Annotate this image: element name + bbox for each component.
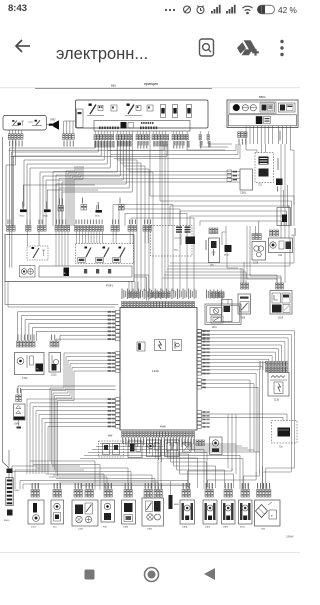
wire to OBD — [202, 414, 288, 421]
wire — [202, 349, 279, 362]
component 1215 body — [252, 242, 266, 261]
svg-text:C901: C901 — [240, 191, 247, 195]
ECU left pins upper — [116, 310, 120, 313]
GMV pins — [16, 395, 19, 402]
dashed option box — [151, 226, 193, 257]
wire — [144, 483, 146, 490]
wire — [114, 158, 240, 160]
wire — [58, 385, 75, 476]
wire — [137, 437, 139, 443]
wire — [32, 452, 34, 474]
connector row BB1 a — [94, 135, 96, 140]
wire — [47, 189, 98, 191]
wire — [278, 126, 280, 144]
mid-maze connector d — [119, 205, 122, 211]
wire — [127, 483, 129, 490]
wire — [147, 503, 152, 511]
coil connector pins row2 — [266, 367, 268, 372]
wire — [29, 452, 31, 474]
wire — [244, 483, 246, 490]
wire — [131, 218, 194, 291]
wire — [187, 486, 189, 491]
wire — [107, 483, 109, 490]
svg-text:C/BAW: C/BAW — [286, 536, 294, 539]
wire — [243, 262, 245, 283]
wire — [56, 174, 240, 176]
ECU bottom wire drops — [122, 437, 124, 443]
ECU 1320 — [120, 308, 197, 431]
wire — [47, 452, 49, 474]
wire — [148, 515, 152, 519]
fuse F1 — [161, 105, 166, 118]
wire — [136, 131, 138, 135]
wire — [148, 131, 150, 135]
wire — [127, 468, 129, 490]
wire — [189, 437, 248, 448]
stubs PSF1 pins to relay bank — [76, 232, 78, 244]
wires from left box to pins — [8, 130, 10, 134]
wire — [62, 140, 132, 226]
svg-text:MG-: MG- — [174, 250, 179, 252]
wire — [263, 451, 292, 489]
wire — [18, 420, 20, 426]
wire — [146, 437, 148, 452]
wire — [68, 360, 116, 385]
wire — [125, 437, 127, 443]
wire — [55, 175, 57, 226]
svg-text:1320: 1320 — [152, 369, 159, 373]
svg-text:8000: 8000 — [15, 490, 21, 492]
wire — [207, 131, 209, 135]
wire — [247, 226, 277, 283]
wire — [129, 140, 153, 291]
wire — [268, 502, 272, 505]
wire — [222, 232, 226, 245]
wire — [129, 232, 131, 244]
MC11 splice — [44, 209, 51, 212]
component 13B6 — [124, 490, 126, 498]
wire — [61, 232, 63, 267]
wire — [186, 437, 242, 446]
generator G2 — [250, 105, 256, 111]
wire — [177, 437, 225, 488]
ignition coil 1130 — [268, 373, 289, 397]
wire — [68, 166, 77, 173]
wire — [51, 355, 53, 368]
wire — [290, 126, 292, 144]
spread bottom right — [266, 449, 295, 489]
svg-text:UN1: UN1 — [212, 327, 217, 329]
connector row BB1 d — [152, 135, 154, 140]
wire — [269, 483, 271, 490]
wire — [164, 140, 166, 291]
bus strip in BB1 — [94, 121, 190, 132]
vertical code labels above ECU — [122, 289, 123, 300]
wire — [66, 121, 68, 134]
wire — [120, 140, 141, 291]
wire — [37, 331, 116, 341]
wire — [88, 452, 207, 454]
small box left edge — [222, 300, 233, 322]
wire — [262, 466, 264, 489]
relay arrow 3 PSF1 — [120, 248, 125, 258]
ECU internal symbol sq — [137, 342, 145, 351]
wire — [266, 483, 268, 490]
wire — [274, 295, 278, 300]
wire — [164, 275, 277, 283]
wire — [106, 131, 108, 135]
wire — [74, 166, 83, 179]
wire — [61, 182, 63, 226]
svg-text:2105: 2105 — [278, 318, 284, 320]
wire — [58, 179, 60, 227]
wire — [180, 437, 234, 488]
svg-text:4MW: 4MW — [160, 426, 166, 429]
svg-text:1208: 1208 — [78, 529, 84, 531]
wire — [96, 446, 163, 448]
wire — [202, 352, 276, 361]
wire — [147, 483, 149, 490]
svg-text:1130: 1130 — [274, 399, 280, 402]
wire — [65, 171, 67, 226]
nested rect wires PSF1 to ECU top — [113, 205, 173, 292]
wire — [154, 483, 156, 490]
svg-text:13EA: 13EA — [182, 526, 188, 529]
fuse box PSF1 — [5, 235, 134, 282]
wire — [26, 231, 28, 246]
wire — [88, 483, 90, 490]
wire — [168, 437, 198, 488]
inner strip PSF1 — [39, 266, 132, 277]
wire — [12, 465, 80, 467]
wire — [225, 226, 227, 245]
wire — [87, 115, 104, 117]
long pair lines upper left — [9, 144, 164, 150]
splice MC GN — [276, 179, 283, 186]
throttle body 1B3 — [257, 490, 259, 498]
wire — [160, 447, 162, 490]
svg-text:721: 721 — [258, 184, 263, 187]
striped connector a — [176, 227, 182, 228]
component 7306 pins — [241, 283, 243, 289]
wire — [131, 437, 133, 443]
wire — [278, 429, 289, 431]
wire — [284, 144, 286, 238]
wire — [59, 481, 158, 483]
pin 199 — [199, 135, 201, 140]
wire — [250, 226, 281, 283]
wire — [29, 324, 116, 342]
relay inside PSF1 left — [27, 246, 48, 260]
svg-text:MC11: MC11 — [44, 216, 49, 218]
wire — [18, 130, 20, 134]
sub box circles PSF1 — [20, 266, 36, 278]
svg-text:4100: 4100 — [240, 527, 246, 529]
left pin drops — [12, 140, 14, 227]
svg-text:UM: UM — [210, 265, 214, 267]
mid-maze connector a — [58, 206, 61, 212]
component 13B2 wide — [144, 490, 146, 498]
wire — [125, 115, 142, 117]
wire — [195, 437, 260, 452]
wire — [137, 282, 139, 293]
wire — [288, 205, 290, 238]
wire — [46, 190, 48, 209]
wire — [161, 131, 163, 135]
component 2100 body — [270, 291, 292, 315]
wire — [202, 418, 284, 421]
wire PSF1 bottom-left exit — [5, 282, 118, 305]
wire — [25, 320, 116, 341]
wire — [291, 144, 295, 205]
wire — [99, 465, 101, 491]
wire — [189, 216, 191, 226]
wire — [24, 140, 104, 207]
wires inside PSF1 left — [9, 231, 11, 268]
svg-text:MW: MW — [108, 435, 113, 438]
wire — [38, 483, 40, 490]
wire — [202, 373, 257, 475]
wire — [281, 221, 283, 226]
component 1120 right — [277, 208, 291, 226]
wire — [237, 144, 239, 155]
sweeps center bundle to right components — [170, 236, 294, 263]
ECU right pins lowest — [197, 411, 201, 414]
wire — [72, 121, 74, 134]
wire — [55, 385, 71, 470]
wire — [53, 483, 55, 490]
wire — [132, 232, 134, 244]
wire — [33, 464, 100, 466]
mid-maze splice c — [96, 210, 102, 213]
wire — [94, 461, 96, 490]
splice MC10 — [225, 245, 232, 252]
wire — [202, 356, 273, 362]
wire — [213, 249, 215, 256]
module UN1 double box — [205, 304, 241, 325]
wire — [92, 449, 204, 451]
nested bracket wires — [66, 166, 75, 171]
wire — [287, 185, 289, 208]
wire — [103, 474, 105, 489]
wire — [257, 126, 259, 144]
wire — [179, 211, 181, 226]
wire — [96, 232, 98, 244]
wires to U1 — [280, 144, 282, 238]
mid-maze connector b — [81, 205, 84, 211]
wire — [84, 232, 86, 244]
wire — [278, 384, 281, 392]
horizontal distribution lines — [30, 460, 95, 462]
component 13E2 — [224, 490, 226, 498]
terminal strip M000 — [8, 450, 10, 467]
wire — [284, 253, 286, 284]
wire — [64, 232, 66, 267]
ECU right pins extra low — [197, 379, 201, 382]
wire — [11, 140, 98, 226]
wire — [22, 484, 24, 489]
dark comp in dashed box — [186, 237, 196, 245]
wire — [199, 221, 201, 226]
wire — [97, 131, 99, 135]
wire — [246, 144, 257, 153]
ECU left pins mid — [116, 352, 120, 355]
battery symbol (solid circle) — [233, 104, 240, 111]
wire — [84, 455, 240, 457]
wire — [46, 124, 49, 126]
wire — [52, 172, 54, 227]
wire — [242, 107, 248, 109]
wire — [202, 387, 259, 452]
relay K1b — [36, 120, 40, 125]
stair wires ECU right fanning to verticals — [202, 331, 295, 449]
wire — [126, 140, 149, 291]
wire — [15, 140, 17, 166]
wire — [100, 131, 102, 135]
page edge line — [0, 87, 300, 89]
wire — [183, 437, 236, 444]
sub-box A in UN1 — [210, 308, 222, 315]
connector row BB1 b — [116, 135, 118, 140]
wire — [140, 437, 142, 443]
wire — [69, 121, 71, 134]
wire — [291, 201, 293, 226]
wire — [165, 437, 189, 488]
svg-text:1510: 1510 — [51, 374, 57, 377]
wire — [112, 232, 114, 244]
wire — [85, 483, 87, 490]
wire — [151, 483, 153, 490]
wire — [56, 339, 116, 341]
wire — [180, 210, 287, 212]
wire — [202, 345, 282, 361]
wire — [202, 359, 269, 361]
svg-text:13E2: 13E2 — [223, 527, 229, 529]
wire — [28, 121, 33, 123]
svg-text:13B2: 13B2 — [147, 529, 153, 531]
wire — [80, 485, 188, 487]
wire — [42, 419, 116, 453]
OBD dashed box — [272, 421, 298, 444]
wire — [167, 269, 243, 283]
wire — [203, 450, 205, 490]
pin row under PSF1 — [128, 292, 130, 297]
wire — [99, 232, 101, 244]
wire — [147, 232, 149, 244]
wire — [10, 471, 131, 473]
wire — [59, 140, 129, 226]
wire — [115, 232, 117, 244]
fuse/relay box BB1 — [76, 100, 209, 128]
comp pair squares 360 — [165, 440, 180, 457]
wire — [160, 200, 292, 202]
wire — [202, 370, 260, 473]
relay K1a — [13, 121, 17, 126]
wire — [242, 459, 244, 490]
ECU internal sym2 — [173, 340, 182, 351]
connector row BB1 e — [172, 135, 174, 140]
fuse in PSF1 — [96, 258, 104, 263]
wire — [148, 515, 152, 519]
wire — [202, 384, 255, 452]
wire — [19, 481, 21, 490]
wire — [253, 126, 255, 144]
ECU top pins — [122, 302, 124, 308]
injector dashed box — [99, 441, 124, 457]
wire — [206, 453, 208, 490]
wire — [166, 272, 247, 283]
wire — [27, 140, 107, 226]
wire — [169, 206, 171, 226]
connector C901 — [240, 169, 253, 190]
double wire right of PSF1 — [146, 282, 148, 301]
injector 1 — [103, 444, 110, 455]
PSF1 top pin row C — [38, 226, 40, 232]
wire — [283, 190, 285, 208]
wire — [73, 179, 75, 226]
wire — [242, 303, 248, 310]
wire — [202, 366, 263, 471]
wire — [184, 444, 191, 452]
wire — [96, 205, 98, 210]
wire — [20, 480, 188, 482]
ECU bottom pins — [122, 432, 124, 438]
wire — [30, 403, 116, 452]
wire — [52, 385, 67, 464]
wire — [200, 140, 228, 147]
wire — [70, 166, 79, 175]
wire — [145, 131, 147, 135]
wire — [139, 131, 141, 135]
wire — [286, 126, 288, 144]
wire — [255, 226, 257, 234]
wire — [67, 232, 69, 267]
svg-text:BB0A: BB0A — [259, 95, 266, 99]
wire — [163, 278, 282, 283]
wire — [123, 140, 145, 291]
wire — [14, 470, 16, 489]
wire — [81, 232, 83, 244]
wire — [106, 477, 108, 489]
component 1208 wide — [74, 490, 76, 498]
wire — [131, 131, 133, 135]
wire — [11, 466, 13, 489]
sensor 1700 body — [15, 353, 45, 375]
wire — [67, 173, 69, 226]
relay R2 in BB1 — [90, 105, 96, 115]
cross horizontals to right components — [150, 195, 294, 197]
mid-left bundle going down — [50, 385, 64, 461]
wire — [208, 483, 210, 490]
wire — [130, 472, 132, 491]
wire — [159, 140, 161, 201]
wire — [239, 144, 241, 159]
fuse F3 — [187, 105, 192, 118]
wire — [128, 437, 130, 443]
wire — [86, 505, 92, 513]
dark module PSF1 — [64, 268, 70, 277]
wire — [239, 456, 241, 490]
component 13E0 — [205, 490, 207, 498]
wire — [174, 342, 176, 349]
wire — [212, 483, 214, 490]
wire — [116, 131, 118, 135]
sensor 1510 body — [49, 353, 61, 373]
wire — [235, 414, 237, 474]
wire bundle from BB1 to left area — [9, 140, 95, 226]
wire — [268, 126, 270, 144]
wire — [178, 131, 180, 135]
